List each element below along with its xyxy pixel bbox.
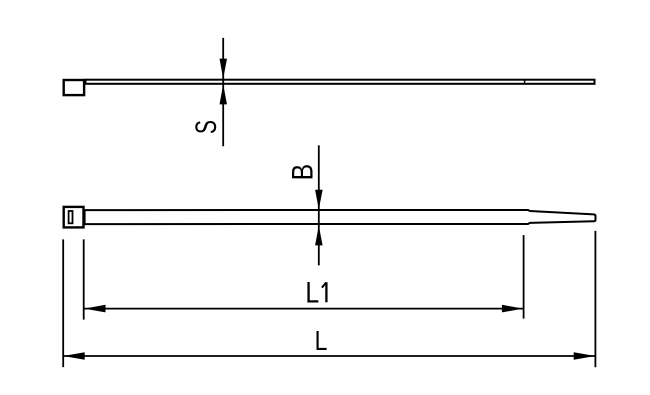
- svg-text:L: L: [305, 275, 319, 309]
- svg-text:L: L: [315, 326, 328, 357]
- svg-text:S: S: [190, 120, 222, 134]
- svg-text:B: B: [285, 164, 318, 181]
